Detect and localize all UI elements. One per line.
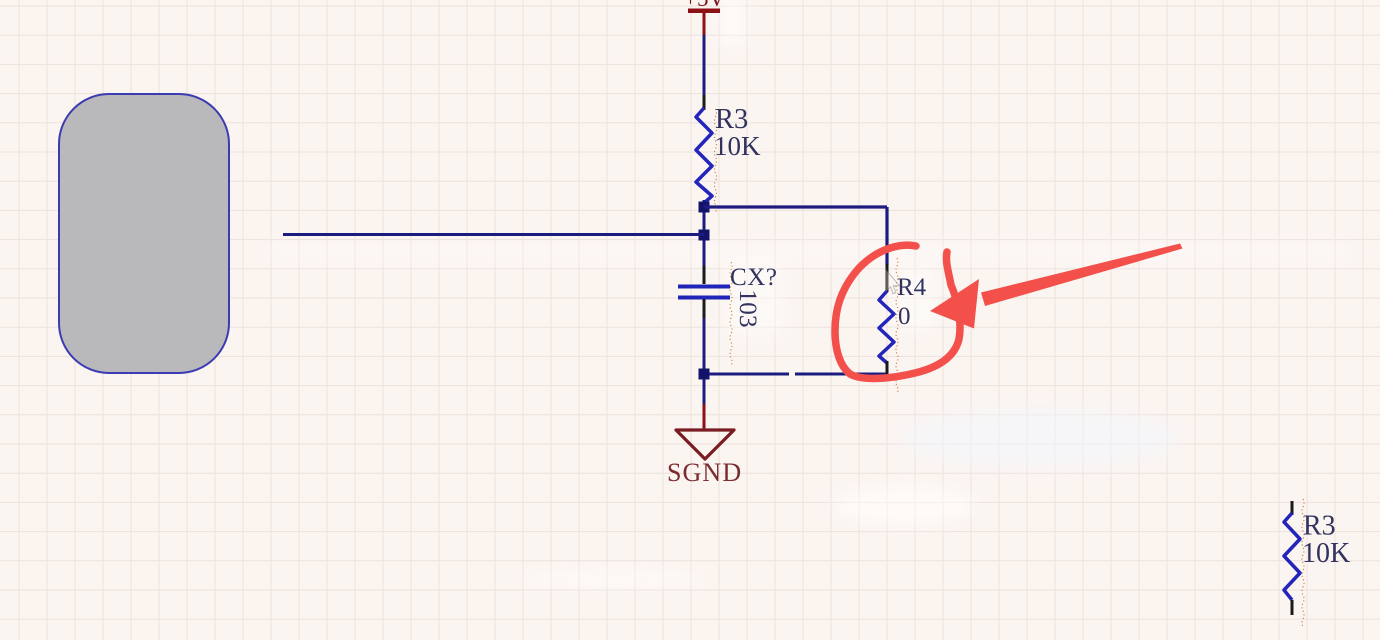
resistor R3 (bottom right) pin bottom bbox=[1291, 600, 1294, 615]
resistor R4 bbox=[879, 291, 894, 363]
resistor R3 (bottom right) pin top bbox=[1291, 501, 1294, 515]
svg-text:10K: 10K bbox=[1302, 538, 1350, 569]
wire +5V to R3 bbox=[703, 35, 706, 96]
capacitor CX? pin bottom (black) bbox=[703, 299, 706, 318]
ghost smudge 3 bbox=[835, 485, 975, 525]
mouse cursor bbox=[886, 270, 900, 294]
power port +5V bar bbox=[688, 9, 720, 14]
svg-text:CX?: CX? bbox=[730, 264, 778, 291]
wire R3 to junction A and down bbox=[703, 200, 706, 266]
R4 pin bottom (black) bbox=[886, 361, 889, 375]
R3 no-ERC squiggle bbox=[715, 109, 717, 213]
ghost smudge 6 bbox=[893, 268, 935, 330]
ghost smudge 4 bbox=[720, 0, 746, 50]
R4 pin top (black) bbox=[886, 264, 889, 292]
svg-text:0: 0 bbox=[898, 303, 911, 330]
ghost smudge 2 bbox=[517, 570, 707, 586]
wire bottom junction C to R4 (with small gap) bbox=[709, 373, 789, 376]
svg-text:103: 103 bbox=[734, 289, 763, 327]
R4 no-ERC squiggle bbox=[896, 258, 898, 394]
capacitor CX? pin top (black) bbox=[703, 266, 706, 284]
wire junction C to ground bbox=[703, 379, 706, 405]
annotation red arrow head bbox=[930, 279, 979, 329]
capacitor CX? bottom plate bbox=[678, 296, 730, 300]
ground stub (dark red) bbox=[703, 404, 706, 430]
annotation red arrow shaft bbox=[981, 244, 1183, 307]
ghost smudge 7 bbox=[726, 263, 784, 335]
wire R4 branch vertical bbox=[885, 207, 888, 265]
annotation red loop bbox=[835, 245, 960, 378]
svg-text:10K: 10K bbox=[714, 131, 761, 161]
junction B bbox=[699, 230, 710, 241]
ground SGND triangle bbox=[676, 430, 734, 459]
wire junction A to R4 branch (horizontal) bbox=[704, 205, 887, 208]
wire left input bbox=[283, 233, 704, 236]
capacitor CX? top plate bbox=[678, 285, 730, 289]
wire capacitor to junction C bbox=[703, 318, 706, 372]
svg-text:R3: R3 bbox=[1303, 511, 1336, 542]
R3 pin top (black) bbox=[703, 95, 706, 110]
power port stub wire bbox=[703, 13, 706, 36]
resistor R3 bbox=[696, 108, 712, 203]
capacitor no-ERC squiggle bbox=[730, 262, 732, 366]
R3 bottom-right no-ERC squiggle bbox=[1302, 499, 1304, 627]
ghost smudge 1 bbox=[900, 408, 1180, 468]
ghost smudge 5 bbox=[270, 243, 1350, 262]
sheet symbol (gray rounded rectangle) bbox=[59, 94, 229, 373]
svg-text:R4: R4 bbox=[897, 274, 927, 301]
junction A bbox=[699, 202, 710, 213]
svg-text:SGND: SGND bbox=[667, 458, 742, 487]
resistor R3 (bottom right) bbox=[1284, 513, 1300, 600]
junction C bbox=[699, 369, 710, 380]
